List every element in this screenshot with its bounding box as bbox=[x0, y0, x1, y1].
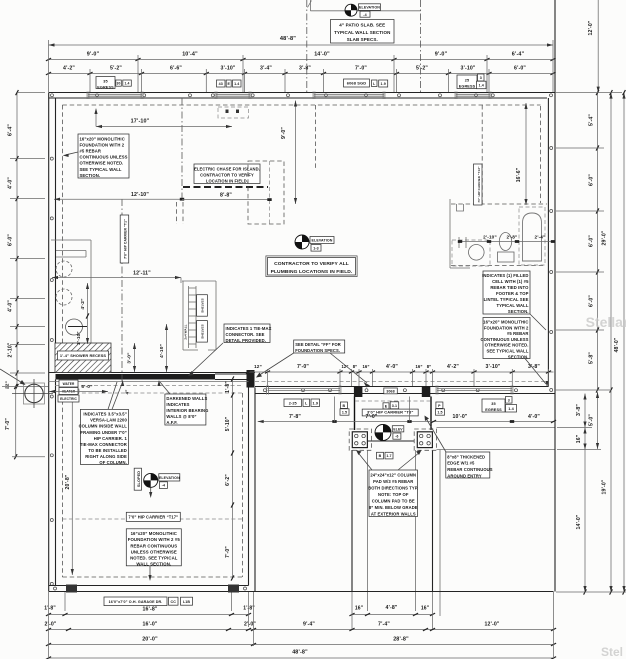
svg-text:CC: CC bbox=[171, 600, 177, 604]
svg-text:CONTRACTOR TO VERIFY: CONTRACTOR TO VERIFY bbox=[200, 172, 254, 177]
svg-text:4’-0”: 4’-0” bbox=[8, 300, 14, 312]
svg-text:70” HIP CARRIER “T13”: 70” HIP CARRIER “T13” bbox=[477, 166, 481, 203]
left wall inner dashed bbox=[61, 105, 63, 344]
svg-text:16”: 16” bbox=[355, 606, 364, 612]
svg-text:SHELVES: SHELVES bbox=[201, 298, 205, 312]
svg-text:CONNECTOR. SEE: CONNECTOR. SEE bbox=[226, 332, 265, 337]
svg-text:17’-10”: 17’-10” bbox=[131, 119, 150, 125]
patio right edge (dash-dot) bbox=[420, 0, 422, 92]
svg-text:6’-2”: 6’-2” bbox=[225, 474, 231, 486]
window label 35 EGRESS (bottom) bbox=[482, 399, 505, 412]
svg-text:AROUND ENTRY: AROUND ENTRY bbox=[447, 473, 482, 478]
garage bottom wall bbox=[49, 586, 255, 592]
entry inner dashed bbox=[355, 400, 431, 402]
svg-text:9’-0”: 9’-0” bbox=[87, 52, 100, 58]
svg-text:EGRESS: EGRESS bbox=[485, 408, 502, 412]
bath left wall bbox=[450, 199, 470, 268]
garage interior dashed footing bbox=[62, 393, 242, 577]
patio left edge (dash-dot) bbox=[306, 0, 308, 92]
entry dim row 7'-8"/7'-0"/10'-0"/4'-0" bbox=[258, 414, 556, 423]
anchor bolts bottom entry wall bbox=[263, 389, 517, 392]
exterior wall right (double line) bbox=[548, 93, 555, 394]
svg-text:9’-0”: 9’-0” bbox=[281, 127, 287, 139]
right dimension 19'-0" bbox=[602, 390, 613, 595]
svg-text:7’-4”: 7’-4” bbox=[378, 622, 390, 628]
svg-text:LINTEL TYPICAL SEE: LINTEL TYPICAL SEE bbox=[484, 297, 529, 302]
dryer circle bbox=[56, 289, 72, 305]
svg-text:1.9: 1.9 bbox=[381, 82, 386, 86]
left extension lines bbox=[2, 93, 48, 457]
svg-text:1.7: 1.7 bbox=[386, 454, 391, 458]
svg-text:L1B: L1B bbox=[183, 600, 190, 604]
leader foundation note to wall dash bbox=[63, 152, 78, 157]
svg-text:BOTH DIRECTIONS TYP.: BOTH DIRECTIONS TYP. bbox=[368, 486, 418, 491]
left dimension line bbox=[8, 90, 19, 389]
door label 6068 SGD bbox=[344, 79, 370, 87]
island left stub dashed bbox=[177, 202, 184, 224]
svg-text:30: 30 bbox=[117, 82, 121, 86]
kitchen counter dashed return bbox=[315, 105, 317, 170]
svg-text:4” PATIO SLAB. SEE: 4” PATIO SLAB. SEE bbox=[339, 23, 385, 28]
svg-text:3068: 3068 bbox=[386, 390, 394, 394]
svg-text:5’-2”: 5’-2” bbox=[110, 66, 122, 72]
svg-text:ELEVATION: ELEVATION bbox=[312, 239, 333, 243]
garage top wall lines bbox=[49, 382, 249, 386]
svg-text:TYPICAL WALL SECTION: TYPICAL WALL SECTION bbox=[334, 30, 390, 35]
right overall dimension 48'-8" bbox=[614, 90, 625, 595]
left lower dimension 7'-0" bbox=[5, 384, 17, 459]
note: 4" patio slab bbox=[331, 20, 395, 44]
svg-text:A.F.F.: A.F.F. bbox=[166, 420, 177, 425]
leader tie-max note to wall bbox=[188, 343, 223, 376]
top overall dimension 48'-8" bbox=[49, 36, 554, 47]
spec boxes P/1.5 right bbox=[436, 402, 443, 408]
svg-text:FRAMING UNDER 7’0”: FRAMING UNDER 7’0” bbox=[80, 430, 126, 435]
svg-text:16’-0”: 16’-0” bbox=[142, 622, 157, 628]
pantry shelving comb bbox=[189, 286, 197, 348]
svg-text:7’0” HIP CARRIER “T1”: 7’0” HIP CARRIER “T1” bbox=[124, 219, 128, 259]
leader filled cell note bbox=[530, 314, 546, 330]
thickened edge lines to right wall bbox=[437, 428, 556, 450]
svg-text:PLUMBING LOCATIONS IN FIELD.: PLUMBING LOCATIONS IN FIELD. bbox=[271, 269, 353, 275]
svg-text:#5 REBAR: #5 REBAR bbox=[507, 331, 529, 336]
svg-text:16”x20” MONOLITHIC: 16”x20” MONOLITHIC bbox=[131, 531, 177, 536]
svg-text:35: 35 bbox=[491, 402, 495, 406]
filled cell column right (dark) bbox=[422, 386, 431, 397]
vertical dim 4'-2"/2'-10" hall bbox=[76, 283, 89, 345]
svg-text:48’-8”: 48’-8” bbox=[280, 36, 296, 42]
bath dims 2'-10"/2'-8"/2'-4" bbox=[458, 235, 555, 243]
leader versa-lam note to bearing wall bbox=[108, 380, 124, 409]
svg-text:RIGHT ALONG SIDE: RIGHT ALONG SIDE bbox=[85, 454, 127, 459]
svg-text:4’-2”: 4’-2” bbox=[63, 66, 75, 72]
svg-text:CONTINUOUS UNLESS: CONTINUOUS UNLESS bbox=[80, 155, 128, 160]
right dimension 16" bbox=[576, 428, 587, 450]
svg-text:1.9: 1.9 bbox=[312, 401, 318, 405]
svg-text:ELEVATION: ELEVATION bbox=[159, 476, 180, 480]
bottom wall dim row (y=372) bbox=[268, 364, 554, 373]
svg-text:TIE-MAX CONNECTOR: TIE-MAX CONNECTOR bbox=[80, 442, 127, 447]
toilet bbox=[498, 233, 515, 263]
svg-text:24”x24”x12” COLUMN: 24”x24”x12” COLUMN bbox=[370, 473, 416, 478]
walkway right edge bbox=[554, 394, 556, 592]
right wall line extended to top edge bbox=[554, 0, 556, 93]
svg-text:L: L bbox=[373, 82, 375, 86]
svg-text:4’-2”: 4’-2” bbox=[80, 298, 86, 310]
bottom wall inner dashed bbox=[255, 381, 547, 383]
svg-text:14’-0”: 14’-0” bbox=[576, 514, 582, 529]
entry slab bold outline bbox=[355, 397, 432, 442]
svg-text:2x4 WALL: 2x4 WALL bbox=[184, 324, 188, 339]
entry dim risers bbox=[335, 397, 410, 422]
svg-text:7’0” HIP CARRIER “T17”: 7’0” HIP CARRIER “T17” bbox=[128, 515, 178, 520]
note: 16x20 monolithic foundation (kitchen) bbox=[78, 134, 129, 178]
dim 8'-8" bbox=[182, 193, 272, 202]
svg-text:16”: 16” bbox=[362, 364, 369, 369]
svg-text:6’-6”: 6’-6” bbox=[170, 66, 182, 72]
svg-text:3’-8”: 3’-8” bbox=[299, 66, 311, 72]
svg-text:UNLESS OTHERWISE: UNLESS OTHERWISE bbox=[131, 549, 177, 554]
water heater dashed circle bbox=[59, 381, 79, 401]
svg-text:B: B bbox=[379, 454, 382, 458]
right dimension 14'-0" bbox=[576, 450, 586, 595]
window sill lines top wall bbox=[87, 92, 491, 100]
svg-text:4’-0”: 4’-0” bbox=[528, 414, 540, 420]
note: 7'0" hip carrier T17 bbox=[126, 512, 180, 521]
svg-text:20’-0”: 20’-0” bbox=[142, 637, 158, 643]
door label 3068 bbox=[384, 388, 398, 394]
svg-text:6’-0”: 6’-0” bbox=[589, 174, 595, 186]
svg-text:COLUMN INSIDE WALL: COLUMN INSIDE WALL bbox=[79, 424, 128, 429]
svg-text:7’-0”: 7’-0” bbox=[297, 364, 309, 370]
garage door jamb marks bbox=[66, 585, 239, 593]
svg-text:1.4: 1.4 bbox=[125, 82, 130, 86]
leader from foundation note to bottom wall bbox=[148, 566, 151, 581]
svg-text:6’-4”: 6’-4” bbox=[8, 124, 14, 136]
svg-text:3’-4”: 3’-4” bbox=[260, 66, 272, 72]
note: versa-lam column bbox=[80, 409, 128, 464]
dim 12'-10" bbox=[54, 192, 184, 201]
top dimension row 3 bbox=[46, 66, 556, 75]
right dimension line (segments 5'-4" etc.) bbox=[589, 90, 599, 393]
garage bearing wall (darkened) bbox=[49, 373, 256, 380]
svg-text:12”: 12” bbox=[254, 364, 262, 369]
dim 6'-0" at water heater bbox=[49, 384, 108, 393]
svg-text:16’-8”: 16’-8” bbox=[142, 607, 157, 613]
note: garage door bbox=[104, 597, 167, 606]
svg-text:-4: -4 bbox=[162, 484, 165, 488]
reference line kitchen (dash-dot) bbox=[181, 98, 183, 199]
svg-text:19’-0”: 19’-0” bbox=[602, 479, 608, 494]
laundry counter bbox=[56, 251, 86, 258]
left dim 22" bbox=[5, 380, 11, 389]
bottom extension lines bbox=[49, 592, 554, 658]
svg-text:WALLS @ 8’0”: WALLS @ 8’0” bbox=[166, 414, 196, 419]
svg-text:-4: -4 bbox=[363, 13, 366, 17]
bottom dim row 3 bbox=[46, 637, 556, 646]
garage bearing wall corner (darkened) bbox=[247, 370, 255, 388]
patio depth dim 12'-0" bbox=[588, 0, 600, 93]
anchor bolts top wall bbox=[51, 94, 553, 97]
note: 8x8 thickened edge bbox=[446, 452, 490, 478]
svg-text:5’-2”: 5’-2” bbox=[416, 66, 428, 72]
bottom dim row 1b porch bbox=[349, 605, 435, 616]
svg-text:16”: 16” bbox=[415, 364, 422, 369]
right dimension 5'-0" below wall bbox=[589, 392, 600, 449]
svg-text:1’-4” SHOWER RECESS: 1’-4” SHOWER RECESS bbox=[60, 353, 107, 358]
spec boxes B/1.5 left bbox=[340, 402, 347, 408]
vanity with sink bbox=[452, 237, 490, 266]
svg-text:EGRESS: EGRESS bbox=[97, 85, 114, 89]
svg-text:48’-8”: 48’-8” bbox=[292, 650, 308, 656]
dim 17'-10" bbox=[94, 108, 232, 128]
svg-text:12’-10”: 12’-10” bbox=[131, 192, 149, 198]
window label 25 EGRESS (right) bbox=[457, 75, 477, 89]
column pad right bbox=[414, 429, 436, 450]
dim 9'-0" kitchen (vertical) bbox=[281, 101, 297, 205]
note: 16x20 monolithic foundation (garage) bbox=[126, 529, 181, 566]
patio slab edge bbox=[308, 0, 421, 11]
dim 4" below wall bbox=[125, 389, 130, 394]
anchor bolts garage bottom bbox=[54, 587, 247, 590]
hip carrier T13 label (rotated) bbox=[474, 164, 483, 205]
svg-text:3: 3 bbox=[508, 398, 510, 402]
anchor bolts right wall bbox=[550, 147, 553, 392]
svg-text:HIP CARRIER. 1: HIP CARRIER. 1 bbox=[94, 436, 128, 441]
svg-text:Stel: Stel bbox=[601, 645, 623, 659]
leader thickened edge note bbox=[425, 416, 447, 453]
svg-text:FOUNDATION SPECS.: FOUNDATION SPECS. bbox=[295, 348, 340, 353]
right wall inner dashed bbox=[540, 106, 542, 203]
window label group 2 (43 E 1.4) bbox=[217, 80, 226, 87]
svg-text:3’-0”: 3’-0” bbox=[127, 352, 133, 364]
leader see-detail note to wall bbox=[256, 353, 370, 388]
svg-text:1.4: 1.4 bbox=[479, 84, 484, 88]
window sill lines bottom wall bbox=[267, 386, 513, 395]
svg-text:3’-10”: 3’-10” bbox=[220, 66, 235, 72]
porch columns vertical lines bbox=[352, 450, 440, 593]
note: filled cell (right) bbox=[483, 271, 530, 314]
svg-text:9’-0”: 9’-0” bbox=[435, 52, 448, 58]
note: 16x20 monolithic (right) bbox=[483, 318, 530, 359]
svg-text:ELECTRIC CHASE FOR ISLAND.: ELECTRIC CHASE FOR ISLAND. bbox=[194, 166, 260, 171]
island dashed outline bbox=[248, 161, 284, 224]
svg-text:REBAR CONTINUOUS: REBAR CONTINUOUS bbox=[130, 543, 177, 548]
svg-text:CELL WITH (1) #5: CELL WITH (1) #5 bbox=[492, 279, 529, 284]
svg-text:WALL SECTION.: WALL SECTION. bbox=[136, 562, 171, 567]
svg-text:FOOTER & TOP: FOOTER & TOP bbox=[496, 291, 529, 296]
svg-text:20’-8”: 20’-8” bbox=[65, 474, 71, 489]
garage right wall bbox=[249, 388, 256, 592]
svg-text:9’-4”: 9’-4” bbox=[303, 622, 315, 628]
top wall inner dashed (kitchen counter) bbox=[62, 104, 540, 106]
svg-text:5’-8”: 5’-8” bbox=[589, 352, 595, 364]
svg-text:NOTED. SEE TYPICAL: NOTED. SEE TYPICAL bbox=[130, 555, 178, 560]
column pad left bbox=[349, 429, 371, 450]
svg-text:INDICATES 3.5”x3.5”: INDICATES 3.5”x3.5” bbox=[83, 412, 126, 417]
svg-text:4’-10”: 4’-10” bbox=[159, 344, 165, 358]
shower recess label bbox=[58, 351, 109, 360]
shower recess hatched bbox=[55, 343, 111, 373]
svg-text:3: 3 bbox=[480, 76, 482, 80]
elevation marker patio bbox=[345, 4, 381, 17]
bottom wall of main house (entry side) bbox=[255, 387, 555, 394]
svg-text:1.4: 1.4 bbox=[508, 407, 514, 411]
svg-text:12’-0”: 12’-0” bbox=[588, 20, 594, 35]
svg-text:6068 SGD: 6068 SGD bbox=[347, 81, 366, 86]
laundry sink bbox=[66, 319, 83, 335]
top dimension extension lines bbox=[49, 40, 554, 92]
svg-text:ELEVATION: ELEVATION bbox=[359, 6, 380, 10]
svg-text:3’-10”: 3’-10” bbox=[460, 66, 475, 72]
svg-text:DETAIL PROVIDED.: DETAIL PROVIDED. bbox=[226, 338, 267, 343]
svg-text:7’-0”: 7’-0” bbox=[5, 418, 11, 430]
svg-text:3’-8”: 3’-8” bbox=[528, 364, 540, 370]
svg-text:INDICATES (1) FILLED: INDICATES (1) FILLED bbox=[482, 273, 528, 278]
bottom dim row 4 overall bbox=[46, 650, 556, 659]
svg-text:5’-10”: 5’-10” bbox=[225, 416, 231, 431]
svg-text:FOUNDATION WITH 2 #5: FOUNDATION WITH 2 #5 bbox=[128, 537, 181, 542]
svg-text:2-25: 2-25 bbox=[289, 401, 297, 405]
svg-text:B: B bbox=[343, 404, 346, 408]
svg-text:10’-4”: 10’-4” bbox=[182, 52, 198, 58]
svg-text:22”: 22” bbox=[5, 380, 11, 389]
svg-text:12’-0”: 12’-0” bbox=[484, 622, 499, 628]
note: electric chase island bbox=[194, 164, 260, 184]
exterior wall left (double line) bbox=[49, 93, 56, 592]
svg-text:OF COLUMN.: OF COLUMN. bbox=[99, 460, 127, 465]
svg-text:SHELVES: SHELVES bbox=[201, 324, 205, 338]
svg-text:REBAR CONTINUOUS: REBAR CONTINUOUS bbox=[447, 467, 492, 472]
bottom dim row 1 garage door bbox=[44, 606, 255, 616]
svg-text:DARKENED WALLS: DARKENED WALLS bbox=[166, 396, 207, 401]
vertical dim 3'-0" bbox=[127, 343, 137, 372]
filled cell column left (dark) bbox=[354, 386, 363, 397]
window spec boxes left bbox=[116, 80, 122, 86]
hall dim 12'-11" bbox=[52, 271, 181, 284]
svg-text:INTERIOR BEARING: INTERIOR BEARING bbox=[166, 408, 208, 413]
svg-text:SEE TYPICAL WALL: SEE TYPICAL WALL bbox=[80, 167, 122, 172]
svg-text:3’-8”: 3’-8” bbox=[576, 404, 582, 416]
anchor bolts left wall bbox=[50, 157, 53, 585]
extension lines bottom wall dims bbox=[340, 369, 549, 386]
svg-text:SECTION.: SECTION. bbox=[508, 309, 529, 314]
kitchen sink cabinet (dashed) bbox=[218, 107, 249, 118]
note: 24x24 column pad bbox=[369, 470, 418, 517]
svg-text:EDGE W/1 #5: EDGE W/1 #5 bbox=[447, 461, 475, 466]
svg-text:#5 REBAR: #5 REBAR bbox=[80, 148, 102, 153]
leader 16x20 right note to wall bbox=[525, 359, 549, 388]
note: 3'0" hip carrier T8 bbox=[362, 409, 418, 416]
svg-text:2’-8”: 2’-8” bbox=[507, 235, 518, 240]
svg-text:3’-10”: 3’-10” bbox=[485, 364, 500, 370]
water meter symbol bbox=[0, 369, 53, 408]
svg-text:REBAR TIED INTO: REBAR TIED INTO bbox=[490, 285, 529, 290]
svg-text:Stellar: Stellar bbox=[586, 314, 626, 330]
svg-text:1’-8”: 1’-8” bbox=[44, 606, 56, 612]
bath/closet dashed wall line bbox=[481, 105, 483, 204]
svg-text:1.5: 1.5 bbox=[342, 411, 347, 415]
svg-text:14’-0”: 14’-0” bbox=[314, 52, 330, 58]
svg-text:1-3: 1-3 bbox=[313, 246, 319, 250]
svg-text:6’-0”: 6’-0” bbox=[514, 66, 526, 72]
garage right wall inner dashed bbox=[242, 393, 244, 577]
svg-text:8’-8”: 8’-8” bbox=[220, 193, 232, 199]
water heater electric labels bbox=[59, 380, 78, 387]
dim 16'-6" (vertical) bbox=[516, 103, 528, 205]
svg-text:ELECTRIC: ELECTRIC bbox=[60, 397, 77, 401]
svg-text:7’-0”: 7’-0” bbox=[225, 546, 231, 558]
svg-text:ELEV: ELEV bbox=[393, 427, 403, 431]
svg-text:7’-0”: 7’-0” bbox=[365, 414, 377, 420]
svg-text:12”: 12” bbox=[341, 364, 348, 369]
hip carrier T1 label box (rotated) bbox=[120, 215, 129, 263]
garage right interior dims 1'-8"/5'-10"/6'-2"/7'-0" bbox=[225, 376, 234, 580]
pantry shelf labels bbox=[197, 295, 208, 342]
window label 35 EGRESS (left) bbox=[96, 77, 115, 89]
island heavy dashed edge bbox=[183, 186, 268, 188]
svg-text:SECTION.: SECTION. bbox=[80, 173, 101, 178]
svg-text:2’-0”: 2’-0” bbox=[44, 622, 56, 628]
exterior wall top (double line) bbox=[49, 93, 555, 99]
svg-text:2’-0”: 2’-0” bbox=[244, 622, 256, 628]
svg-text:2’-4”: 2’-4” bbox=[535, 235, 546, 240]
spec boxes B 1.7 bbox=[377, 452, 384, 459]
svg-text:48’-0”: 48’-0” bbox=[614, 337, 620, 352]
svg-text:8” MIN. BELOW GRADE: 8” MIN. BELOW GRADE bbox=[369, 505, 418, 510]
svg-text:6’-0”: 6’-0” bbox=[8, 234, 14, 246]
hip carrier T1 vertical line bbox=[121, 199, 123, 385]
svg-text:2’-10”: 2’-10” bbox=[76, 331, 81, 344]
svg-text:5’-4”: 5’-4” bbox=[589, 114, 595, 126]
svg-text:2’-10”: 2’-10” bbox=[483, 235, 497, 240]
svg-text:COLUMN PAD TO BE: COLUMN PAD TO BE bbox=[372, 499, 415, 504]
svg-text:43: 43 bbox=[219, 82, 223, 86]
svg-text:6’-0”: 6’-0” bbox=[81, 384, 93, 390]
svg-text:16”: 16” bbox=[421, 606, 430, 612]
svg-text:8”: 8” bbox=[353, 364, 358, 369]
note: see detail FF bbox=[294, 340, 345, 353]
svg-text:8”x8” THICKENED: 8”x8” THICKENED bbox=[447, 454, 485, 459]
svg-text:10’-0”: 10’-0” bbox=[452, 414, 467, 420]
svg-text:12’-11”: 12’-11” bbox=[133, 271, 151, 277]
svg-text:SEE TYPICAL WALL: SEE TYPICAL WALL bbox=[486, 349, 528, 354]
garage interior dim 20'-8" bbox=[65, 394, 74, 575]
spec boxes 2-25 L 1.9 bbox=[284, 399, 302, 407]
svg-text:PAD W/3 #5 REBAR: PAD W/3 #5 REBAR bbox=[373, 479, 413, 484]
vertical dim 4'-10" bbox=[159, 324, 168, 372]
leader darkened walls note bbox=[157, 380, 170, 394]
elevation marker dining bbox=[295, 235, 334, 251]
svg-text:8”: 8” bbox=[427, 364, 432, 369]
svg-text:CONTRACTOR TO VERIFY ALL: CONTRACTOR TO VERIFY ALL bbox=[274, 261, 349, 267]
svg-text:4’-0”: 4’-0” bbox=[8, 177, 14, 189]
svg-text:INDICATES: INDICATES bbox=[166, 402, 189, 407]
svg-text:-6: -6 bbox=[395, 435, 398, 439]
bottom dim row 2 bbox=[44, 622, 556, 631]
note: contractor verify plumbing (double border) bbox=[268, 258, 356, 276]
svg-text:25: 25 bbox=[465, 78, 469, 82]
svg-text:28’-8”: 28’-8” bbox=[393, 637, 409, 643]
svg-text:1.5: 1.5 bbox=[437, 411, 442, 415]
svg-text:SEE DETAIL “FF” FOR: SEE DETAIL “FF” FOR bbox=[295, 342, 341, 347]
svg-text:VERSA-LAM 2200: VERSA-LAM 2200 bbox=[90, 418, 127, 423]
svg-text:5’-0”: 5’-0” bbox=[589, 414, 595, 426]
svg-text:7’-8”: 7’-8” bbox=[289, 414, 301, 420]
svg-text:EGRESS: EGRESS bbox=[459, 85, 476, 89]
svg-text:1’-8”: 1’-8” bbox=[225, 381, 231, 393]
svg-text:AT EXTERIOR WALLS: AT EXTERIOR WALLS bbox=[371, 512, 416, 517]
